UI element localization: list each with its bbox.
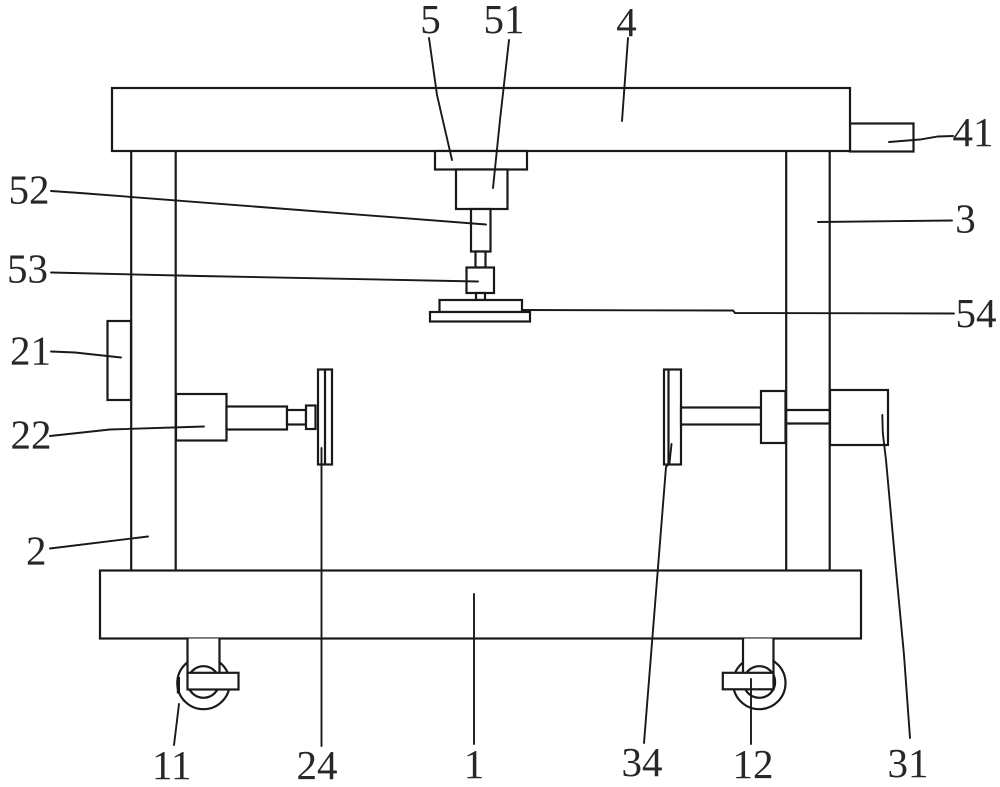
svg-text:53: 53: [7, 246, 48, 292]
svg-text:21: 21: [10, 328, 51, 374]
svg-text:41: 41: [953, 109, 994, 155]
svg-text:34: 34: [622, 739, 663, 785]
svg-text:54: 54: [956, 290, 997, 336]
svg-text:31: 31: [888, 740, 929, 786]
svg-text:2: 2: [26, 528, 47, 574]
svg-text:22: 22: [11, 412, 52, 458]
svg-text:52: 52: [9, 167, 50, 213]
svg-text:4: 4: [616, 0, 637, 45]
svg-text:11: 11: [152, 742, 191, 787]
svg-text:5: 5: [420, 0, 441, 42]
svg-text:24: 24: [297, 742, 338, 787]
svg-text:3: 3: [955, 196, 976, 242]
svg-text:12: 12: [733, 741, 774, 787]
svg-text:1: 1: [464, 741, 485, 787]
svg-text:51: 51: [484, 0, 525, 42]
